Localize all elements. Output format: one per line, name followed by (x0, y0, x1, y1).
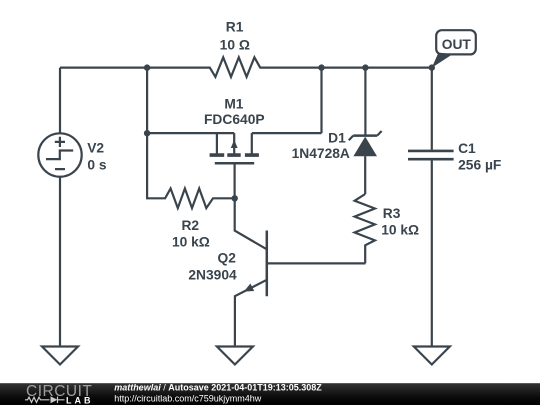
svg-text:matthewlai / Autosave 2021-04-: matthewlai / Autosave 2021-04-01T19:13:0… (114, 382, 322, 392)
svg-text:LAB: LAB (66, 395, 94, 405)
svg-text:Q2: Q2 (217, 250, 236, 265)
svg-text:V2: V2 (87, 140, 104, 155)
svg-text:FDC640P: FDC640P (204, 112, 265, 127)
svg-text:R3: R3 (383, 206, 401, 221)
svg-text:1N4728A: 1N4728A (292, 146, 350, 161)
svg-text:0 s: 0 s (87, 157, 107, 172)
svg-text:M1: M1 (224, 97, 243, 112)
svg-text:10 kΩ: 10 kΩ (172, 235, 210, 250)
svg-text:256 µF: 256 µF (458, 157, 501, 172)
svg-text:http://circuitlab.com/c759ukjy: http://circuitlab.com/c759ukjymm4hw (114, 393, 262, 403)
svg-text:2N3904: 2N3904 (188, 267, 237, 282)
svg-text:D1: D1 (328, 130, 346, 145)
svg-text:R1: R1 (226, 20, 244, 35)
svg-text:R2: R2 (181, 218, 199, 233)
svg-text:OUT: OUT (442, 37, 472, 52)
svg-text:10 Ω: 10 Ω (220, 37, 250, 52)
svg-text:10 kΩ: 10 kΩ (381, 223, 419, 238)
svg-text:C1: C1 (458, 141, 476, 156)
